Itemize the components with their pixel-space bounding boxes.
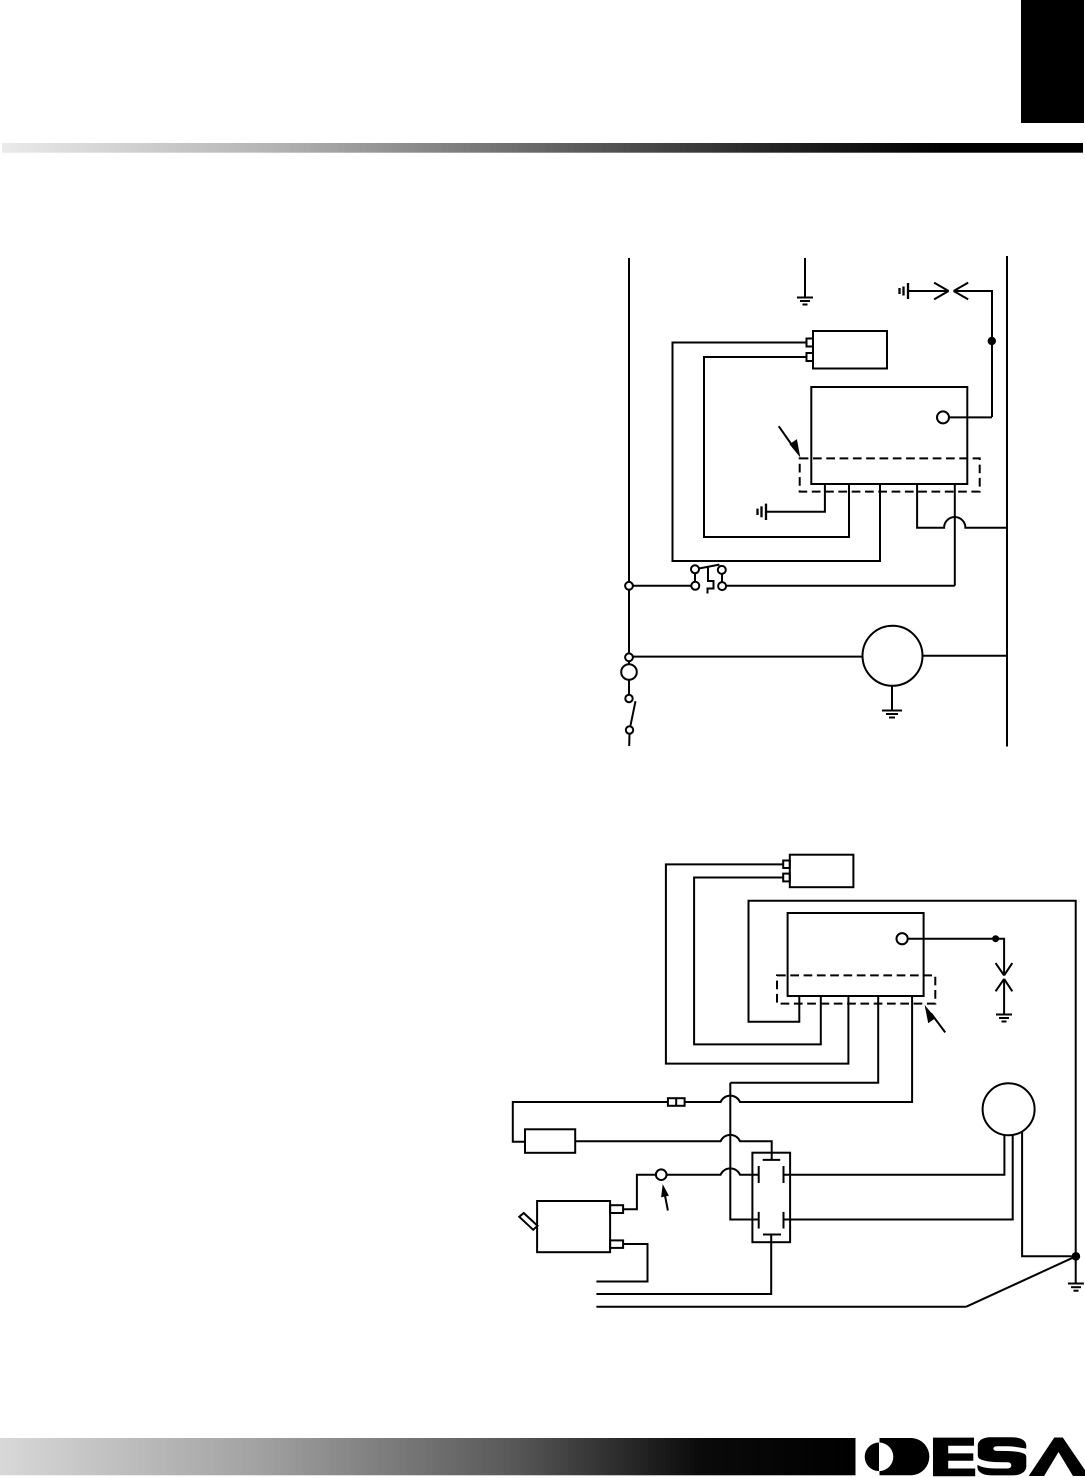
- wire: sensor circle to valve row 1 (diagram 2): [667, 1168, 759, 1174]
- wire: ignitor pin 2 loop: [704, 357, 849, 537]
- safety switch contacts (diagram 1): [691, 565, 726, 594]
- wire: pump pin 2 lead (diagram 2): [596, 1244, 647, 1282]
- wire: module pin to fuse line (diagram 2): [685, 996, 913, 1102]
- wire: rail tap to motor (diagram 1): [633, 656, 863, 658]
- ground (motor, diagram 1): [882, 711, 902, 718]
- left rail junction circle (diagram 1): [625, 582, 633, 590]
- dashed connector outline (diagram 1): [800, 458, 980, 491]
- wire: diagonal ground return (diagram 2): [966, 1256, 1076, 1306]
- ground (top of diagram 1): [797, 258, 813, 305]
- wire: pump pin 1 to flame sensor circle (diagram 2): [623, 1175, 656, 1210]
- pump spade tab (diagram 2): [519, 1213, 537, 1230]
- relay box (diagram 2): [525, 1129, 575, 1153]
- control module box (diagram 2): [788, 913, 924, 996]
- wire: spark gap electrode lead: [909, 290, 949, 292]
- pointer arrow to connector (diagram 1): [779, 426, 801, 457]
- wire: valve row 2 to motor (diagram 2): [784, 1135, 1013, 1220]
- wire: motor ground lead (diagram 2): [1022, 1132, 1072, 1257]
- DESA logo: [865, 1437, 1085, 1476]
- terminal circle (diagram 2): [897, 933, 908, 944]
- pump box (diagram 2): [537, 1201, 610, 1252]
- ground (right rail, diagram 2): [1068, 1284, 1084, 1291]
- spark gap arrows (diagram 1): [934, 283, 968, 300]
- ignitor pin 2 (diagram 2): [783, 874, 790, 882]
- logo letter S: [977, 1437, 1026, 1475]
- ground (spark gap, diagram 2): [996, 1015, 1012, 1022]
- wire: ignitor pin 1 loop: [673, 343, 881, 562]
- wire: right supply rail (diagram 1): [1006, 256, 1008, 747]
- motor (diagram 2): [983, 1083, 1035, 1135]
- ignitor pin 1 (diagram 2): [783, 861, 790, 869]
- wire: ignitor pin 1 loop (diagram 2): [666, 864, 849, 1063]
- wire: thermostat line right segment: [726, 585, 955, 587]
- logo letter A: [1029, 1438, 1085, 1477]
- valve contact bars row 1 (diagram 2): [759, 1166, 784, 1183]
- wire: ignitor pin 2 loop (diagram 2): [694, 878, 821, 1045]
- terminal circle on control board (diagram 1): [937, 411, 949, 423]
- control module box (diagram 1): [811, 387, 967, 484]
- wire: HV node to control board terminal: [949, 416, 992, 418]
- wire: thermostat line left segment: [633, 585, 692, 587]
- wire: valve row 1 to motor (diagram 2): [784, 1135, 1005, 1175]
- wire: terminal to spark gap (diagram 2): [908, 939, 1004, 976]
- footer gradient rule: [0, 1438, 856, 1475]
- logo white half circle: [879, 1443, 893, 1472]
- logo black half circle: [865, 1443, 879, 1472]
- wire: module pin jumping to right rail (diagram 1): [917, 484, 1007, 528]
- fuse (diagram 2): [668, 1098, 685, 1106]
- wire: left supply rail (diagram 1): [628, 258, 630, 664]
- wire: spark gap to ground (diagram 2): [1003, 979, 1005, 1014]
- top gradient rule: [2, 143, 1083, 153]
- junction dot (HV node, diagram 1): [988, 337, 996, 345]
- wire: relay to valve coil (diagram 2): [575, 1135, 772, 1160]
- gas valve box (diagram 2): [752, 1153, 790, 1243]
- wire: module pin down to thermostat line (diagram 1): [954, 484, 956, 586]
- valve contact bars row 2 (diagram 2): [759, 1212, 784, 1229]
- wire: fuse line to relay drop (diagram 2): [513, 1102, 668, 1142]
- sensor circle (diagram 2): [656, 1169, 667, 1180]
- wire: module pin to chassis ground (diagram 1): [767, 484, 825, 512]
- wire: valve feed vertical (diagram 2): [730, 1083, 758, 1220]
- ignitor pin 2 (diagram 1): [807, 353, 814, 361]
- wire: module pin to valve feed (diagram 2): [730, 996, 878, 1083]
- wire: bottom ground run (diagram 2): [596, 1306, 966, 1308]
- pointer arrow to connector (diagram 2): [925, 1005, 946, 1033]
- dashed connector outline (diagram 2): [777, 975, 935, 1003]
- junction dot (diagram 2): [992, 935, 999, 942]
- logo D block: [880, 1438, 930, 1475]
- motor (diagram 1): [863, 626, 923, 686]
- page header black block: [1021, 0, 1084, 123]
- wire: motor to ground (diagram 1): [891, 686, 893, 710]
- ignition switch (diagram 1): [621, 661, 637, 746]
- spark gap arrows (diagram 2): [996, 963, 1013, 991]
- valve coil top terminal bar (diagram 2): [763, 1159, 781, 1161]
- ignitor box (diagram 2): [790, 855, 854, 888]
- pointer arrow to sensor circle (diagram 2): [661, 1184, 669, 1210]
- valve bottom terminal bar (diagram 2): [763, 1234, 781, 1236]
- wire: spark gap to HV node: [954, 291, 992, 417]
- wire: outer loop to right rail (diagram 2): [749, 901, 1076, 1283]
- wire: valve bottom lead (diagram 2): [596, 1235, 771, 1295]
- wire: motor to right rail (diagram 1): [923, 655, 1008, 657]
- rail tap circle (diagram 1): [625, 653, 633, 661]
- chassis ground stub (diagram 1): [758, 504, 767, 520]
- pump pin 1 (diagram 2): [610, 1205, 623, 1213]
- pump pin 2 (diagram 2): [610, 1240, 623, 1248]
- ignitor pin 1 (diagram 1): [807, 339, 814, 347]
- ignitor box (diagram 1): [813, 331, 887, 369]
- junction dot (ground node, diagram 2): [1072, 1252, 1081, 1261]
- spark gap electrode (chassis stub, diagram 1): [900, 283, 909, 299]
- logo letter E: [933, 1438, 975, 1477]
